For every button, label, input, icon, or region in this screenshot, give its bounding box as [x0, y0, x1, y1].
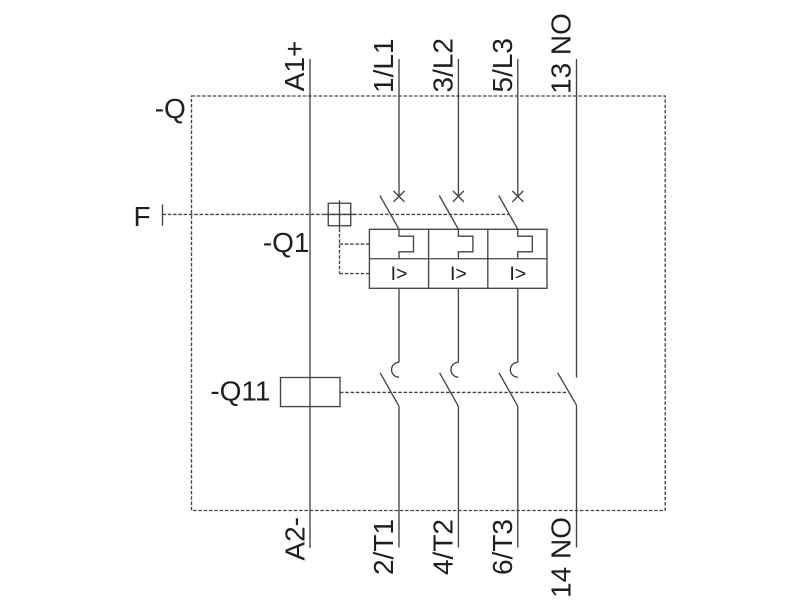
- svg-text:-Q11: -Q11: [210, 376, 270, 407]
- main contact blade pole 3: [499, 373, 518, 407]
- wire 2/T1 bottom: [398, 406, 400, 547]
- main contact arc pole 2: [451, 362, 458, 377]
- wire 3/L2 top: [457, 59, 459, 196]
- wire 14 NO bottom: [576, 405, 578, 547]
- wire pole 1 mid: [398, 288, 400, 362]
- breaker contact cross pole 1: [394, 191, 405, 202]
- wire 4/T2 bottom: [457, 406, 459, 547]
- svg-text:I>: I>: [509, 263, 526, 285]
- dashed actuator drop wire: [339, 229, 341, 274]
- svg-text:A2-: A2-: [280, 517, 311, 561]
- breaker box horizontal divider: [369, 258, 547, 260]
- breaker contact blade pole 2: [439, 196, 458, 230]
- breaker box divider 2: [487, 229, 489, 288]
- contactor coil -Q11: [281, 378, 341, 407]
- breaker contact blade pole 1: [380, 196, 399, 230]
- svg-text:I>: I>: [391, 263, 408, 285]
- dashed contactor linkage: [340, 391, 567, 393]
- svg-text:5/L3: 5/L3: [487, 38, 518, 93]
- svg-text:6/T3: 6/T3: [487, 519, 518, 575]
- trip latch pole 1: [399, 229, 414, 258]
- breaker contact cross pole 3: [512, 191, 523, 202]
- svg-text:1/L1: 1/L1: [368, 39, 399, 94]
- wire 13 NO top: [576, 59, 578, 378]
- trip latch pole 3: [518, 229, 533, 258]
- svg-text:2/T1: 2/T1: [368, 519, 399, 575]
- main contact blade pole 2: [440, 373, 459, 407]
- enclosure dashed border -Q: [192, 96, 666, 511]
- dashed stub to trip row: [340, 243, 370, 245]
- trip latch pole 2: [458, 229, 473, 258]
- svg-text:14 NO: 14 NO: [546, 517, 577, 598]
- dashed trip linkage line from F: [163, 213, 510, 215]
- svg-text:4/T2: 4/T2: [427, 519, 458, 575]
- actuator cross horizontal: [325, 213, 354, 215]
- F terminal tick: [162, 204, 164, 226]
- breaker contact blade pole 3: [499, 196, 518, 230]
- wire 5/L3 top: [517, 59, 519, 196]
- svg-text:-Q1: -Q1: [263, 227, 310, 258]
- wire 6/T3 bottom: [517, 406, 519, 547]
- breaker -Q1 housing box: [369, 229, 547, 288]
- wire 1/L1 top: [398, 59, 400, 196]
- svg-text:A1+: A1+: [279, 41, 310, 92]
- main contact arc pole 3: [510, 362, 517, 377]
- actuator cross vertical: [339, 200, 341, 229]
- breaker box divider 1: [428, 229, 430, 288]
- wire pole 3 mid: [517, 288, 519, 362]
- svg-text:I>: I>: [450, 263, 467, 285]
- manual actuator square: [328, 203, 351, 226]
- main contact blade pole 1: [380, 373, 399, 407]
- wire pole 2 mid: [457, 288, 459, 362]
- svg-text:-Q: -Q: [155, 93, 186, 124]
- main contact arc pole 1: [392, 362, 399, 377]
- svg-text:3/L2: 3/L2: [427, 38, 458, 93]
- aux contact blade 13-14: [558, 373, 577, 405]
- breaker contact cross pole 2: [453, 191, 464, 202]
- wire A1-A2: [309, 59, 311, 548]
- dashed stub to overload row: [340, 273, 370, 275]
- svg-text:13 NO: 13 NO: [546, 13, 577, 94]
- svg-text:F: F: [134, 201, 151, 232]
